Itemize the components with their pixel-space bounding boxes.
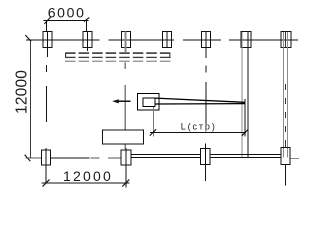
column B4	[281, 148, 290, 165]
direction arrow	[112, 99, 130, 103]
bottom dim tick right	[122, 180, 129, 187]
column C7	[281, 32, 291, 48]
column C5	[202, 32, 211, 59]
column C1	[43, 21, 52, 58]
bottom wall dash 1	[91, 157, 100, 159]
column C3	[122, 32, 131, 53]
crane boom upper edge	[156, 98, 245, 102]
extension line grid B top	[85, 21, 87, 32]
svg-text:6000: 6000	[48, 4, 86, 20]
svg-text:L(стр): L(стр)	[181, 122, 217, 132]
dim tick L left	[150, 129, 156, 135]
crane rail F left (gray)	[241, 32, 243, 158]
column B3	[201, 149, 211, 165]
grid axis G dashed centerline	[285, 32, 287, 148]
bottom dim line 12000	[42, 182, 130, 184]
svg-text:12000: 12000	[13, 70, 30, 114]
column B2	[121, 150, 131, 165]
crane boom lower edge	[156, 103, 245, 105]
dim line 6000	[44, 20, 89, 22]
column B1	[42, 150, 51, 165]
crane rail G right (gray)	[287, 32, 289, 158]
storage stacks hatch rows	[65, 52, 170, 61]
grid axis E bottom line	[205, 144, 207, 182]
grid axis C dashed gray line	[124, 63, 126, 150]
stack left bracket	[65, 53, 66, 59]
bottom double wall upper	[131, 154, 281, 156]
grid axis A dashed line	[46, 65, 48, 122]
left dim tick bottom	[25, 155, 31, 161]
dim line L(str)	[150, 131, 246, 133]
grid axis E dashed line	[205, 66, 207, 127]
dim tick 6000 left	[44, 17, 50, 24]
grid axis A bottom line	[45, 148, 47, 184]
column C4	[163, 32, 172, 48]
column C6	[241, 32, 251, 48]
left dim line 12000	[29, 40, 31, 158]
crane rail G left (gray)	[283, 32, 285, 158]
dim tick L right	[242, 129, 248, 135]
dim L(str) extension right	[244, 99, 246, 137]
load box	[102, 130, 143, 144]
bottom wall dash 2	[108, 157, 121, 159]
column C2	[83, 32, 92, 52]
bottom double wall lower	[131, 157, 281, 159]
crane trolley outer	[137, 93, 159, 110]
top wall	[26, 39, 298, 41]
stack right bracket	[169, 53, 170, 59]
left dim tick top	[25, 35, 31, 41]
svg-text:12000: 12000	[63, 168, 113, 184]
dim L(str) extension left	[152, 107, 154, 137]
bottom wall left	[26, 157, 42, 159]
grid axis G bottom line	[284, 165, 286, 186]
dim tick 6000 right	[84, 17, 89, 21]
grid axis C bottom line	[125, 148, 127, 188]
bottom dim tick left	[43, 180, 50, 187]
crane rail F right (black)	[247, 32, 249, 158]
crane trolley inner	[143, 98, 155, 106]
bottom wall gray tail	[290, 158, 299, 160]
